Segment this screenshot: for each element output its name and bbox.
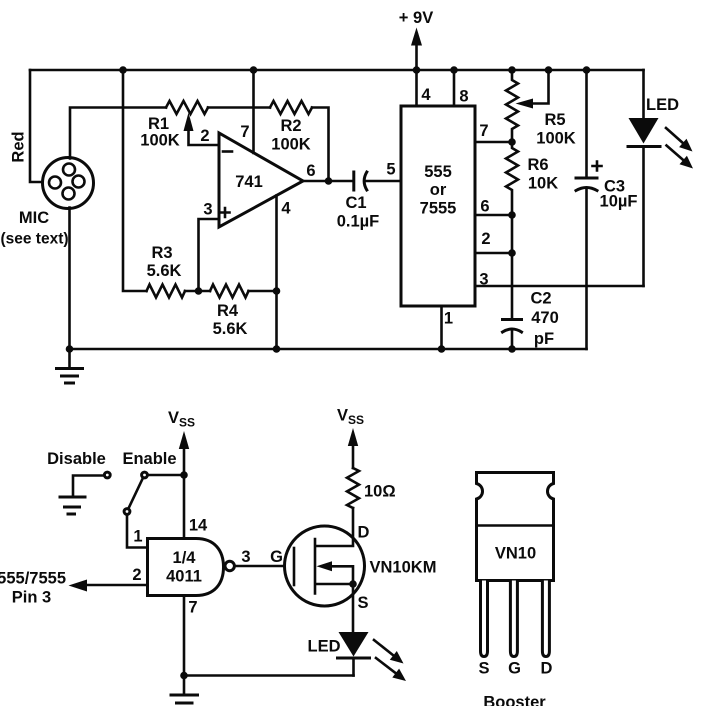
ground symbol (bottom circuit) (171, 676, 198, 704)
svg-text:2: 2 (200, 127, 209, 145)
svg-text:2: 2 (481, 230, 490, 248)
svg-text:0.1µF: 0.1µF (337, 213, 380, 231)
node top rail / R5 top (508, 66, 516, 74)
wire R3 to R4 (185, 290, 210, 293)
wire enable contact to Vss node (148, 474, 185, 477)
svg-text:741: 741 (235, 173, 263, 191)
node pin7/LED ground junction (180, 672, 188, 680)
wire R2 right down to output (312, 108, 329, 182)
svg-text:8: 8 (459, 88, 468, 106)
ground symbol (top circuit) (57, 349, 83, 383)
svg-text:2: 2 (132, 566, 141, 584)
svg-text:(see text): (see text) (0, 231, 68, 248)
VN10 package outline with side notches (477, 473, 554, 581)
wire left rail to MIC (30, 70, 44, 182)
555 pin 3 wire to LED (475, 285, 644, 288)
svg-text:10K: 10K (528, 175, 558, 193)
wire MIC top to R1 row (70, 108, 166, 159)
svg-text:R6: R6 (527, 156, 548, 174)
svg-text:7: 7 (188, 599, 197, 617)
node top rail / op-amp pin7 (250, 66, 258, 74)
resistor R1 (pot) (166, 101, 208, 114)
node pin2 junction (508, 249, 516, 257)
wire MIC bottom to ground rail (68, 208, 71, 350)
svg-text:3: 3 (241, 548, 250, 566)
VN10 lead D (542, 581, 549, 657)
555 pin 8 stub (453, 70, 456, 106)
svg-text:or: or (430, 181, 447, 199)
node ground rail / MIC (66, 345, 74, 353)
svg-text:R4: R4 (217, 302, 239, 320)
wire pole to gate pin1 (127, 515, 148, 548)
op-amp pin 4 wire (275, 196, 278, 350)
svg-text:R2: R2 (280, 117, 301, 135)
op-amp pin 7 wire (252, 70, 255, 153)
switch arm wire (128, 478, 143, 509)
svg-text:14: 14 (189, 517, 208, 535)
node ground rail / pin4 (273, 345, 281, 353)
Vss supply arrow (left) (179, 431, 189, 475)
svg-text:10Ω: 10Ω (364, 483, 396, 501)
node ground rail / pin1 (438, 345, 446, 353)
node top rail / left branch (119, 66, 127, 74)
svg-text:G: G (270, 548, 283, 566)
555 pin 7 wire (475, 141, 512, 144)
resistor R3 (147, 285, 186, 298)
switch disable contact (104, 472, 110, 478)
svg-text:VN10: VN10 (495, 545, 536, 563)
wire R4 to pin4 vertical (249, 290, 277, 293)
VN10 lead S (481, 581, 488, 657)
svg-text:S: S (357, 594, 368, 612)
VN10 package tab/body divider (477, 524, 554, 527)
gate pin 7 wire (183, 596, 186, 676)
wire Vss node to gate pin14 (183, 475, 186, 539)
555 pin 6 wire (475, 214, 512, 217)
gate pin 2 wire with arrow to 555 pin3 (69, 566, 148, 592)
LED D1 (top) (628, 70, 679, 286)
svg-text:Red: Red (10, 131, 28, 162)
node top rail / +9V pin4 (413, 66, 421, 74)
wire +9V supply rail (top) (30, 69, 644, 72)
svg-text:1: 1 (133, 528, 142, 546)
IC 555 box (401, 106, 475, 306)
LED light arrows (top) (666, 128, 693, 169)
wire disable contact to ground (73, 476, 104, 497)
op-amp pin 6 output wire (303, 180, 353, 183)
capacitor C1 (337, 172, 380, 231)
LED light arrows (bottom) (374, 640, 406, 681)
wire pin6 junction down to C2 (511, 215, 514, 318)
node R5/R6 pin7 junction (508, 138, 516, 146)
node top rail / R5 wiper (545, 66, 553, 74)
resistor R7 10 ohm (347, 468, 359, 508)
svg-text:6: 6 (480, 198, 489, 216)
svg-text:R1: R1 (148, 115, 169, 133)
switch arm pole (124, 509, 130, 515)
node top rail / C3 (583, 66, 591, 74)
svg-text:555: 555 (424, 163, 452, 181)
node R4/pin4 junction (273, 287, 281, 295)
svg-text:Booster: Booster (483, 694, 546, 706)
svg-text:470: 470 (531, 309, 559, 327)
svg-text:Pin 3: Pin 3 (12, 589, 51, 607)
svg-text:D: D (541, 660, 553, 678)
wire left branch vertical to R3 (123, 70, 147, 291)
svg-text:LED: LED (308, 638, 341, 656)
wire LED to gate pin7 ground node (184, 674, 354, 677)
svg-text:7555: 7555 (420, 200, 457, 218)
svg-text:5.6K: 5.6K (213, 320, 248, 338)
svg-text:Enable: Enable (122, 450, 176, 468)
transistor Q1 VN10KM MOSFET (285, 508, 365, 632)
svg-text:3: 3 (203, 201, 212, 219)
svg-text:6: 6 (306, 162, 315, 180)
svg-text:3: 3 (479, 271, 488, 289)
pot R1 wiper arrow (184, 113, 220, 146)
resistor R2 (270, 101, 312, 114)
capacitor C2 (503, 290, 559, 350)
svg-text:D: D (358, 524, 370, 542)
svg-text:C1: C1 (345, 194, 366, 212)
svg-text:5: 5 (386, 161, 395, 179)
switch enable contact (142, 472, 148, 478)
ground symbol (disable) (60, 497, 85, 514)
wire ground rail (top circuit) (70, 348, 587, 351)
svg-text:7: 7 (240, 123, 249, 141)
wire R1 to R2 (208, 106, 270, 109)
microphone MIC (43, 158, 94, 209)
svg-text:Disable: Disable (47, 450, 106, 468)
node output / R2 feedback (325, 177, 333, 185)
pot R5 wiper arrow (516, 70, 549, 109)
capacitor C3 electrolytic (576, 70, 637, 349)
node top rail / pin8 (450, 66, 458, 74)
svg-text:VN10KM: VN10KM (370, 559, 437, 577)
wire C1 to 555 pin5 (366, 180, 401, 183)
LED D2 (bottom) (308, 632, 370, 676)
resistor R6 (506, 142, 518, 215)
+9V supply arrow (399, 9, 433, 70)
resistor R5 (pot) (506, 70, 518, 142)
svg-text:C2: C2 (530, 290, 551, 308)
resistor R4 (210, 285, 249, 298)
node R6/pin6 junction (508, 211, 516, 219)
gate output wire to MOSFET gate (234, 565, 292, 568)
svg-text:LED: LED (646, 96, 679, 114)
op-amp U1 741 (219, 133, 303, 227)
555 pin 1 stub (440, 306, 443, 349)
NAND gate U2 1/4 4011 (148, 539, 235, 596)
svg-text:+ 9V: + 9V (399, 9, 433, 27)
svg-text:100K: 100K (271, 136, 311, 154)
svg-text:555/7555: 555/7555 (0, 570, 66, 588)
svg-text:MIC: MIC (19, 209, 49, 227)
svg-text:1: 1 (444, 310, 453, 328)
svg-text:R3: R3 (151, 244, 172, 262)
VN10 lead G (510, 581, 517, 657)
555 pin 4 stub (415, 70, 418, 106)
node R3/R4 pin3 junction (195, 287, 203, 295)
svg-text:pF: pF (534, 330, 554, 348)
svg-text:4011: 4011 (166, 568, 202, 586)
svg-text:10µF: 10µF (600, 193, 638, 211)
op-amp pin 3 wire (199, 219, 220, 291)
node enable/Vss junction (180, 471, 188, 479)
svg-text:7: 7 (479, 122, 488, 140)
svg-text:5.6K: 5.6K (147, 262, 182, 280)
Vss supply arrow (right) (348, 428, 358, 468)
svg-text:100K: 100K (140, 132, 180, 150)
555 pin 2 wire (475, 252, 512, 255)
svg-text:4: 4 (281, 200, 291, 218)
node ground rail / C2 (508, 345, 516, 353)
svg-text:4: 4 (421, 86, 431, 104)
svg-text:S: S (478, 660, 489, 678)
svg-text:1/4: 1/4 (173, 549, 197, 567)
svg-text:100K: 100K (536, 130, 576, 148)
svg-text:G: G (508, 660, 521, 678)
svg-text:R5: R5 (544, 111, 565, 129)
